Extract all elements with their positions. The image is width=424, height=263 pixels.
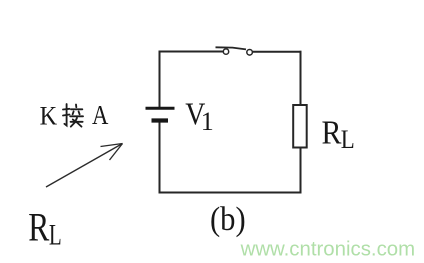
svg-text:R: R <box>28 205 49 249</box>
svg-text:L: L <box>49 218 62 252</box>
annotation arrow (points to battery area) <box>46 144 123 188</box>
wire right side upper (to resistor) <box>300 51 302 106</box>
switch K blade (open, nearly horizontal) <box>216 47 247 49</box>
svg-text:(b): (b) <box>210 200 246 238</box>
label RL (bottom-left) <box>28 205 62 251</box>
wire top-left segment <box>159 51 224 53</box>
wire right side lower (resistor to bottom) <box>300 148 302 194</box>
label RL (right of resistor) <box>322 113 355 155</box>
label V1 <box>185 97 213 136</box>
wire top-right segment <box>253 51 302 53</box>
battery V1 long plate (+) <box>146 107 175 110</box>
wire left side lower (battery to bottom) <box>159 122 161 194</box>
svg-text:R: R <box>322 113 343 151</box>
resistor RL box <box>293 105 307 148</box>
svg-text:K: K <box>40 103 57 131</box>
wire left side upper (top to battery) <box>159 51 161 108</box>
switch K left contact circle <box>223 49 228 54</box>
svg-text:A: A <box>92 101 108 130</box>
svg-text:1: 1 <box>201 107 214 136</box>
switch K right contact circle <box>247 50 253 56</box>
wire bottom <box>159 192 302 194</box>
svg-text:L: L <box>341 126 355 155</box>
svg-text:www.cntronics.com: www.cntronics.com <box>240 239 416 261</box>
battery V1 short plate (-) <box>152 118 169 122</box>
hanzi 接 (drawn strokes) <box>63 104 83 127</box>
